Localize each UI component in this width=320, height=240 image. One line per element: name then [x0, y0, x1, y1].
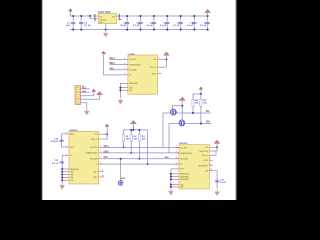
wire gate supply riser: [181, 101, 183, 120]
svg-text:GND: GND: [70, 177, 74, 179]
pin 8 U2 VDD: [158, 58, 162, 60]
wire SETC: [62, 146, 66, 148]
pin 6 U3 C1: [66, 154, 70, 156]
pin U3 gnd 5: [62, 179, 69, 181]
svg-text:6: 6: [66, 154, 67, 156]
wire SDA1 to U2: [110, 64, 124, 66]
pin 4 U3 bus: [99, 146, 102, 148]
wire GND bottom rail: [70, 29, 209, 31]
capacitor C9: [205, 16, 210, 30]
junction: [180, 29, 182, 31]
power VDD arrow for U2 CS: [102, 52, 106, 55]
wire VDD to CS bus: [147, 130, 149, 164]
wire SDA right of Q2: [185, 123, 211, 125]
svg-text:SCL1: SCL1: [104, 145, 110, 148]
pin 2 U2: [124, 58, 128, 60]
svg-text:7: 7: [100, 157, 101, 159]
pin 5 U2: [124, 69, 128, 71]
wire SA0 to jumper: [120, 159, 122, 181]
pin U3 gnd 1: [62, 168, 69, 170]
svg-text:SCL/SPC: SCL/SPC: [180, 147, 188, 149]
pin IN bar U1: [94, 14, 95, 21]
junction R3 rail: [138, 129, 140, 131]
junction R2 SDA1: [130, 152, 132, 154]
pin 4 U2: [124, 64, 128, 66]
junction CS VDD: [147, 163, 149, 165]
junction: [207, 29, 209, 31]
wire U4 VDD_IO: [209, 151, 216, 155]
capacitor C2: [79, 16, 84, 30]
junction R5 SDA: [200, 123, 202, 125]
svg-text:3.3V LDO: 3.3V LDO: [98, 11, 111, 14]
svg-text:SDA/SDI/SDO: SDA/SDI/SDO: [180, 152, 192, 155]
pin U4 VDD: [209, 146, 212, 148]
capacitor C5: [152, 16, 157, 30]
pin 2 U4: [175, 146, 179, 148]
wire U2 gnd chain: [119, 83, 121, 97]
wire EN: [90, 16, 98, 19]
junction: [119, 87, 121, 89]
junction U3 gnd 5: [61, 179, 63, 181]
wire U2 VDD riser: [165, 55, 167, 67]
junction R2 rail: [130, 129, 132, 131]
pin 7 U3 bus: [99, 158, 102, 160]
svg-text:SCL/SPC: SCL/SPC: [129, 59, 137, 61]
svg-text:SDA: SDA: [206, 121, 210, 124]
power VIN arrow at R4 R5: [199, 87, 203, 90]
wire SDA1 left of Q2: [169, 123, 179, 125]
svg-text:4.7 µF: 4.7 µF: [133, 24, 140, 27]
wire U4 VDD riser: [216, 143, 218, 151]
svg-text:OUT: OUT: [112, 17, 116, 19]
svg-text:SETP: SETP: [70, 134, 75, 136]
svg-text:SA0: SA0: [104, 156, 109, 159]
junction U3 VDD: [106, 133, 108, 135]
junction Q1 gate: [181, 105, 183, 107]
svg-text:SCL: SCL: [82, 87, 87, 89]
connector JP1 header: [75, 86, 81, 105]
pin 6 U3 bus: [99, 163, 102, 165]
wire U3 VDD_IO: [99, 138, 107, 140]
svg-text:RES(GND): RES(GND): [180, 179, 189, 181]
resistor R3: [138, 130, 140, 159]
wire R4R5 rail: [193, 93, 201, 95]
svg-text:CAP: CAP: [205, 170, 209, 173]
pin 7 U4 INT1: [209, 159, 213, 161]
junction U3 gnd 2: [61, 171, 63, 173]
pin U4 gnd: [171, 178, 179, 180]
svg-text:GND: GND: [70, 180, 74, 182]
wire SCL from JP1: [81, 88, 90, 90]
pin 3 U2 gnd: [120, 82, 128, 84]
junction R4 SCL: [192, 112, 194, 114]
wire VIN/3V3 top rail: [70, 15, 209, 17]
capacitor C11: [60, 155, 65, 169]
pin U3 VDD: [99, 133, 103, 135]
wire JP1 VDD: [81, 92, 94, 96]
svg-text:SDO/SA0: SDO/SA0: [180, 158, 188, 161]
junction: [126, 15, 128, 17]
pin 3 U4: [175, 152, 179, 154]
svg-text:0.1 µF: 0.1 µF: [200, 25, 207, 27]
svg-text:0.1 µF: 0.1 µF: [160, 25, 167, 27]
junction SA0 jumper: [120, 158, 122, 160]
ground below U1: [103, 30, 108, 37]
power VIN arrow at JP1: [97, 91, 103, 94]
pin 9 U3 INT1: [99, 171, 104, 173]
svg-text:DRDY/INT2: DRDY/INT2: [198, 165, 208, 167]
ground below JP1: [84, 108, 89, 115]
wire SCL1 left of Q1: [163, 112, 171, 114]
junction U3 gnd 4: [61, 176, 63, 178]
resistor R1: [122, 130, 124, 148]
pin U4 gnd: [171, 176, 179, 178]
resistor R4: [192, 94, 194, 113]
svg-text:7: 7: [210, 159, 211, 161]
junction: [105, 29, 107, 31]
power VDD arrow top right: [205, 9, 211, 12]
regulator U1 3.3V LDO: [98, 11, 116, 24]
pin U4 gnd: [171, 184, 179, 186]
jumper via SA0: [118, 181, 123, 186]
svg-text:6: 6: [124, 73, 125, 75]
junction: [119, 89, 121, 91]
wire VIN drop: [69, 12, 71, 16]
wire SDA1 drop: [168, 124, 170, 153]
junction U4 VDD: [216, 146, 218, 148]
svg-text:SA0: SA0: [121, 177, 125, 180]
junction EN tap: [89, 15, 91, 17]
svg-text:RES(GND): RES(GND): [70, 169, 79, 171]
svg-text:L3GD20H: L3GD20H: [179, 143, 188, 145]
junction U4 gnd: [170, 178, 172, 180]
svg-text:SCL1: SCL1: [109, 57, 115, 60]
pin OUT bar U1: [119, 14, 120, 19]
svg-text:8: 8: [158, 58, 159, 60]
pin 2 U3 SETC: [66, 146, 70, 148]
junction R1 SCL1: [123, 146, 125, 148]
pin U3 gnd 4: [62, 176, 69, 178]
capacitor C4: [138, 16, 143, 30]
power VIN arrow: [69, 9, 73, 12]
pin 8 U4 INT2: [209, 165, 213, 167]
pin 1 U2 gnd: [120, 89, 128, 91]
wire bus SCL1: [101, 146, 179, 148]
pin U3 gnd 2: [62, 171, 69, 173]
wire U1 GND: [105, 24, 107, 30]
wire U3 VDD: [102, 133, 107, 135]
wire R5 top: [200, 90, 202, 94]
svg-text:VDD: VDD: [205, 147, 209, 149]
capacitor C13: [215, 176, 220, 188]
svg-text:GND: GND: [70, 172, 74, 174]
pin 18 U4 CAP: [209, 170, 212, 172]
svg-text:GND: GND: [100, 22, 104, 24]
svg-text:VDD_IO: VDD_IO: [202, 155, 209, 157]
svg-text:VDD: VDD: [94, 134, 98, 136]
junction: [140, 29, 142, 31]
svg-text:LPS25H: LPS25H: [128, 54, 135, 56]
transistor Q2: [179, 120, 185, 126]
wire JP1 GND: [81, 103, 87, 111]
junction: [80, 29, 82, 31]
svg-text:1 µF: 1 µF: [65, 25, 70, 27]
junction rail VDD: [132, 129, 134, 131]
junction: [80, 15, 82, 17]
wire pull-up rail: [124, 129, 148, 131]
wire JP1 VIN: [81, 95, 100, 100]
junction U4 gnd: [170, 186, 172, 188]
pin U4 gnd: [171, 186, 179, 188]
wire bus SA0: [101, 158, 179, 160]
wire U2 VDD: [162, 58, 167, 60]
resistor R5: [200, 94, 202, 124]
svg-text:4.7 µF: 4.7 µF: [52, 162, 59, 165]
junction: [180, 15, 182, 17]
svg-text:SDA1: SDA1: [109, 62, 115, 65]
pin 4 U4: [175, 158, 179, 160]
svg-text:SDA/SDI/SDO: SDA/SDI/SDO: [129, 63, 141, 66]
svg-text:SDA/SDI/SDO: SDA/SDI/SDO: [86, 152, 98, 155]
svg-text:0.1 µF: 0.1 µF: [146, 25, 153, 27]
ground below U3: [60, 182, 65, 189]
IC U3 LSM303D: [69, 130, 99, 184]
svg-text:3: 3: [66, 132, 67, 134]
IC U2 LPS25H: [128, 54, 158, 94]
ground below C13: [215, 188, 220, 195]
svg-text:SDA: SDA: [82, 90, 86, 93]
resistor R2: [130, 130, 132, 153]
capacitor C10: [59, 134, 64, 147]
svg-text:SETC: SETC: [70, 147, 75, 149]
wire U4 gnd chain: [170, 169, 172, 191]
wire U4 CAP: [212, 171, 217, 176]
pin 11 U3 INT2: [99, 176, 104, 178]
svg-text:10 nF: 10 nF: [220, 182, 226, 184]
junction U4 gnd: [170, 184, 172, 186]
junction: [126, 29, 128, 31]
junction: [166, 29, 168, 31]
pin number 3 U1: [118, 19, 121, 20]
svg-text:LSM303D: LSM303D: [69, 130, 78, 132]
svg-text:5: 5: [124, 68, 125, 70]
wire SDA from JP1: [81, 91, 90, 93]
junction: [140, 15, 142, 17]
wire U4 RES VDD: [209, 150, 217, 152]
svg-text:VDD: VDD: [153, 59, 157, 61]
transistor Q1: [171, 109, 177, 115]
svg-text:18: 18: [210, 169, 212, 171]
svg-text:2: 2: [176, 146, 177, 148]
power VDD arrow level shifter: [179, 97, 185, 100]
pin 3 U3 SETP: [66, 133, 70, 135]
pin 1 U2 gnd: [120, 87, 128, 89]
svg-text:7: 7: [158, 72, 159, 74]
svg-text:0.22 µF: 0.22 µF: [51, 141, 59, 143]
svg-text:0.1 µF: 0.1 µF: [173, 25, 180, 27]
pin U3 gnd 3: [62, 174, 69, 176]
svg-text:SDO/SA0: SDO/SA0: [90, 158, 98, 161]
svg-text:2: 2: [66, 145, 67, 147]
junction R5 rail: [200, 93, 202, 95]
wire SETP: [62, 133, 66, 135]
pin U4 DEN: [175, 168, 179, 170]
svg-text:SCL/SPC: SCL/SPC: [90, 147, 98, 149]
junction U4 gnd: [170, 176, 172, 178]
wire bus SDA1: [101, 152, 179, 154]
svg-text:4: 4: [124, 63, 125, 65]
junction: [153, 29, 155, 31]
junction: [207, 15, 209, 17]
junction U2 VDD: [165, 58, 167, 60]
capacitor C6: [165, 16, 170, 30]
pin 7 U2 INT1: [158, 73, 162, 75]
junction U4 gnd: [170, 173, 172, 175]
junction U3 gnd 1: [61, 168, 63, 170]
svg-text:3: 3: [176, 151, 177, 153]
svg-text:9: 9: [102, 170, 103, 172]
power VDD arrow at JP1: [92, 89, 96, 92]
wire SCL1 drop: [162, 113, 164, 147]
ground below U4: [169, 188, 174, 195]
svg-text:5: 5: [100, 151, 101, 153]
junction: [72, 15, 74, 17]
svg-text:RES(VDD): RES(VDD): [199, 151, 208, 153]
wire U2 VDD_IO: [158, 66, 167, 68]
svg-text:6: 6: [100, 162, 101, 164]
capacitor C8: [192, 16, 197, 30]
svg-text:DEN: DEN: [180, 169, 184, 171]
junction: [153, 15, 155, 17]
wire U4 DEN: [171, 168, 176, 170]
power VDD arrow at U3: [105, 124, 109, 127]
svg-text:4: 4: [100, 146, 101, 148]
wire SA0 to U2: [110, 69, 124, 71]
svg-text:8: 8: [210, 164, 211, 166]
svg-text:2: 2: [124, 58, 125, 60]
capacitor C3: [125, 16, 130, 30]
wire U4 VDD: [213, 146, 217, 148]
svg-text:0.1 µF: 0.1 µF: [187, 25, 194, 27]
svg-text:GND: GND: [180, 187, 184, 189]
wire VDD drop: [207, 13, 209, 16]
svg-text:SA0: SA0: [109, 67, 113, 70]
svg-text:GND: GND: [129, 90, 133, 92]
junction: [193, 15, 195, 17]
pin U4 gnd: [171, 173, 179, 175]
wire U3 VDD riser: [106, 127, 108, 139]
power VDD arrow at U2: [164, 52, 170, 55]
svg-text:SCL: SCL: [206, 110, 210, 113]
wire U3 gnd chain: [61, 169, 63, 186]
svg-text:VDD_IO: VDD_IO: [150, 67, 157, 69]
pin 6 U2: [124, 74, 128, 76]
svg-text:GND: GND: [70, 174, 74, 176]
wire Q1 top: [173, 106, 183, 110]
junction: [166, 15, 168, 17]
svg-text:0.1 µF: 0.1 µF: [84, 25, 91, 27]
wire VDD to CS: [104, 54, 124, 75]
junction: [72, 29, 74, 31]
wire VDD to rail: [132, 124, 134, 130]
pin 5 U3 bus: [99, 152, 102, 154]
wire bus CS: [101, 163, 179, 165]
power VDD arrow at R1-R3: [130, 120, 136, 123]
IC U4 L3GD20H: [179, 143, 210, 189]
svg-text:SDO/SA0: SDO/SA0: [129, 69, 137, 72]
wire C1 pin: [62, 154, 65, 156]
junction R3 SA0: [138, 158, 140, 160]
svg-text:4: 4: [176, 157, 177, 159]
junction: [193, 29, 195, 31]
svg-text:SDA1: SDA1: [104, 150, 110, 153]
svg-text:RES(GND): RES(GND): [129, 83, 138, 85]
wire SCL1 to U2: [110, 58, 124, 60]
svg-text:5: 5: [176, 162, 177, 164]
svg-text:RES(GND): RES(GND): [180, 176, 189, 178]
ground below U2: [118, 97, 123, 104]
capacitor C1: [71, 16, 76, 30]
wire SCL right of Q1: [176, 112, 211, 114]
svg-text:11: 11: [102, 176, 104, 178]
junction U3 gnd 3: [61, 174, 63, 176]
pin 5 U4: [175, 163, 179, 165]
svg-text:VDD_IO: VDD_IO: [91, 139, 98, 141]
svg-text:47 µF: 47 µF: [120, 24, 126, 27]
power VDD arrow at U4: [214, 140, 220, 144]
capacitor C7: [178, 16, 183, 30]
